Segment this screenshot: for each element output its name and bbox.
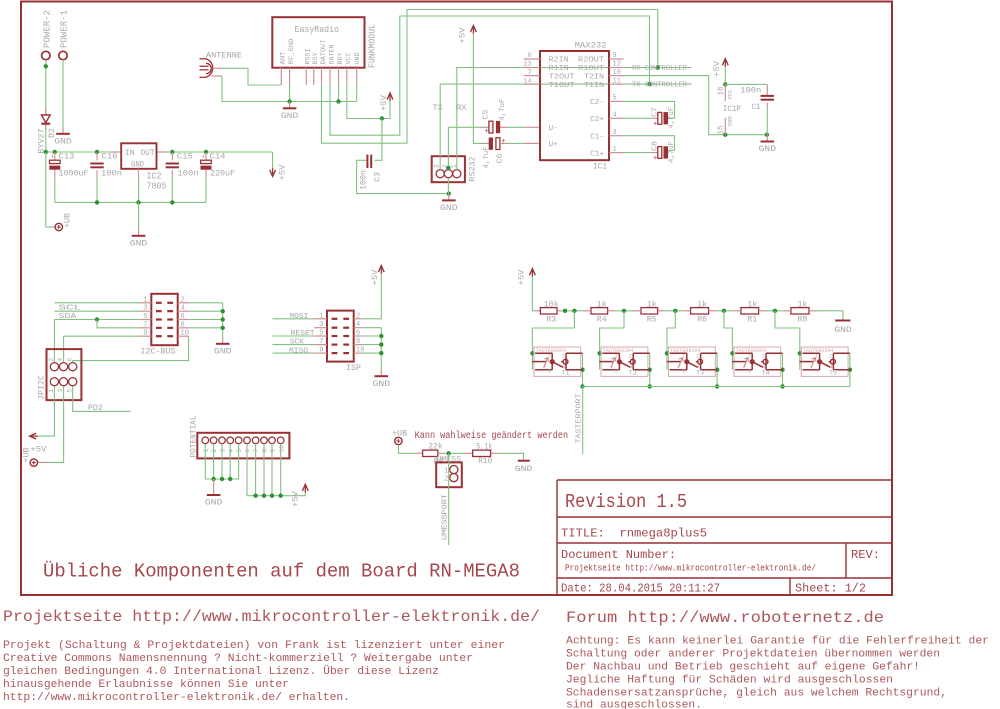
svg-text:POWER-1: POWER-1 [59,10,70,48]
label +5V EasyRadio [379,94,389,111]
svg-text:7805: 7805 [147,182,167,192]
svg-text:1: 1 [548,353,551,359]
svg-text:TX-CONTROLLER: TX-CONTROLLER [632,82,688,90]
svg-text:ANT: ANT [279,51,286,64]
svg-text:100n: 100n [101,169,122,179]
svg-text:2: 2 [829,353,832,359]
label PD2 [88,403,103,413]
svg-text:+UB: +UB [392,428,407,438]
svg-text:RSSI: RSSI [304,48,311,64]
wire I2C pin7 branch [97,320,139,328]
wire +UB branch [46,152,55,227]
wire VCC to +5V [347,84,390,121]
svg-text:2: 2 [356,312,360,320]
UMESS pads 1 2 [444,466,458,484]
ground GND under C1 [759,135,777,155]
svg-text:GND: GND [205,499,223,508]
wire ISP pin2 to +5V [362,273,381,319]
svg-text:GND: GND [354,52,361,64]
connector POWER-1 pad [59,51,67,59]
label +5V ISP [370,269,380,286]
svg-text:+: + [501,138,505,146]
svg-text:IN: IN [125,148,135,158]
label C15 [177,152,193,162]
title block project url [565,564,816,574]
label C6 [497,153,505,164]
EasyRadio pin labels [279,38,361,64]
connector POWER-2 pad [42,51,50,59]
svg-text:3: 3 [548,368,551,374]
resistor R1 1k [741,308,759,314]
power +5V arrow above VCC wire [387,93,393,101]
svg-text:R3: R3 [546,314,556,324]
svg-text:12: 12 [613,61,621,69]
svg-text:T3: T3 [696,370,704,377]
svg-text:3: 3 [615,368,618,374]
svg-text:R10: R10 [478,456,492,466]
wire RDY to ground rail [336,84,340,104]
svg-text:Projektseite http://www.mikroc: Projektseite http://www.mikrocontroller-… [3,608,540,626]
wire taster T3 output column [715,353,719,386]
svg-text:SCK: SCK [290,339,305,347]
label IC2 [147,172,162,182]
wire +5V to C6 [473,34,488,144]
label IC1 [593,162,607,172]
resistor R8 1k [791,308,809,314]
svg-text:+5V: +5V [458,27,468,44]
svg-text:C5: C5 [482,109,490,120]
MAX232 left pin stubs and numbers [523,52,540,85]
ground GND right of I2C-BUS [214,337,232,357]
svg-text:DATOUT: DATOUT [320,39,327,64]
label TASTERPORT [576,393,584,444]
label R5 [647,314,657,324]
connector POWER-1 label [59,10,70,48]
label +5V POTENTIAL [291,490,301,507]
svg-text:1: 1 [143,296,147,304]
svg-text:RS232: RS232 [467,157,477,182]
label T5 [829,370,837,377]
ic IC1P pin 15 GND [718,116,734,135]
label 4,7uF C8 [668,141,676,163]
label T3 [696,370,704,377]
svg-text:7: 7 [143,321,147,329]
svg-text:7: 7 [253,449,260,453]
wire resistor junction to taster T4 [724,311,733,354]
label UMESS [436,455,461,465]
label POTENTIAL [188,416,198,458]
svg-text:+: + [653,121,657,129]
svg-text:T1IN: T1IN [584,82,604,90]
svg-text:4,7uF: 4,7uF [483,147,491,169]
label ISP [346,363,361,373]
svg-text:U+: U+ [549,141,558,149]
capacitor C15 [166,152,179,202]
svg-text:hinausgehende Erlaubnisse könn: hinausgehende Erlaubnisse können Sie unt… [3,679,289,691]
label +UB UMESS [392,428,407,438]
svg-text:C1-: C1- [590,133,604,141]
svg-text:1: 1 [748,353,751,359]
svg-text:I2C-BUS: I2C-BUS [141,347,176,357]
svg-text:C15: C15 [177,152,193,162]
label 100n C1 [740,86,761,96]
svg-text:RESET: RESET [291,330,316,338]
svg-text:R1IN: R1IN [549,65,569,73]
svg-text:ANTENNE: ANTENNE [206,51,242,61]
svg-text:C2-: C2- [590,99,604,107]
diode D2 BYV27 [41,108,50,130]
svg-text:220uF: 220uF [210,169,235,179]
label SCL [58,305,81,313]
wire input rail [44,150,122,154]
svg-text:R2OUT: R2OUT [578,57,605,65]
svg-text:7: 7 [319,338,323,346]
svg-text:+: + [653,155,657,163]
net SCK wire [273,344,315,346]
svg-text:http://www.mikrocontroller-ele: http://www.mikrocontroller-elektronik.de… [3,692,350,704]
label +UB left [63,213,73,228]
svg-text:3: 3 [682,368,685,374]
wire I2C pin10 to JPI2C pin6 [73,336,189,362]
net SDA wire [54,310,139,312]
svg-text:T5: T5 [829,370,837,377]
label MOSI [289,313,308,321]
label MAX232 [575,41,607,51]
label C13 [59,152,75,162]
svg-text:R8: R8 [797,314,807,324]
svg-text:5: 5 [236,449,243,453]
connector POWER-2 label [41,10,52,48]
wire taster T5 output column [848,353,852,386]
net TX-CONTROLLER wire [624,82,692,86]
label R8 [797,314,807,324]
svg-text:6: 6 [356,330,360,338]
label JPI2C [37,375,47,400]
label C8 [652,141,660,151]
svg-text:JPI2C: JPI2C [37,375,47,400]
JPI2C pads [48,358,77,393]
svg-text:R6: R6 [697,314,707,324]
svg-text:+5V: +5V [517,269,527,286]
capacitor C13 [49,152,60,202]
wire +5V to IC1P VCC [723,67,727,87]
svg-text:Forum http://www.roboternetz.d: Forum http://www.roboternetz.de [566,609,884,627]
label C1 [752,102,761,112]
svg-text:MAX232: MAX232 [575,41,607,51]
capacitor C3 [367,155,371,168]
wires POTENTIAL pins 1-5 to ground [205,444,238,481]
svg-text:9: 9 [319,347,323,355]
label C14 [210,152,226,162]
switch T4 TASTER9304 [732,347,782,376]
connector RS232 box [432,156,465,182]
label FUNKMODUL [367,24,378,68]
svg-text:Creative Commons Namensnennung: Creative Commons Namensnennung ? Nicht-k… [3,653,473,665]
svg-text:T2: T2 [629,370,637,377]
svg-text:RX-CONTROLLER: RX-CONTROLLER [632,65,688,73]
wire C3 to ground [357,160,451,196]
svg-text:C8: C8 [652,141,660,151]
ground GND under RS232 [440,194,458,214]
wire RF_GND to ground rail [287,84,291,104]
label RS232 [467,157,477,182]
svg-text:Projekt (Schaltung & Projektda: Projekt (Schaltung & Projektdateien) von… [3,640,505,652]
svg-text:ISP: ISP [346,363,361,373]
svg-text:1k: 1k [697,300,707,310]
capacitor C14 [201,152,212,202]
svg-text:GND: GND [131,159,144,169]
wire RS232 RX to MAX232 pin13 [457,68,624,170]
schematic frame border [21,2,892,596]
svg-text:100n: 100n [740,86,761,96]
label +5V right of arrow [278,164,288,181]
svg-text:1000uF: 1000uF [59,169,89,179]
caption Projektseite url [3,608,540,626]
svg-text:C6: C6 [497,153,505,164]
svg-text:1: 1 [615,353,618,359]
title block Document Number row [561,548,676,562]
label T1 [562,370,570,377]
label T2 [629,370,637,377]
label 1k R5 [647,300,657,310]
svg-text:GND: GND [214,348,232,357]
EasyRadio pin stubs [281,68,356,85]
capacitor C8 [624,136,675,163]
svg-text:4,7uF: 4,7uF [668,107,676,129]
label +5V above C6 [458,27,468,44]
supply +UB circle JPI2C [30,459,37,466]
svg-text:+5V: +5V [370,269,380,286]
wire ground rail under regulator [55,200,206,204]
label R10 [478,456,492,466]
label 7805 [147,182,167,192]
svg-text:RX: RX [456,103,466,113]
svg-text:11: 11 [613,77,621,85]
svg-text:DATEN: DATEN [328,44,335,64]
svg-text:C3: C3 [373,172,383,182]
svg-text:3: 3 [748,368,751,374]
svg-text:MISO: MISO [289,347,309,355]
title block Sheet cell [795,582,866,596]
label 4,7uF C7 [668,107,676,129]
svg-text:5,1k: 5,1k [476,442,492,452]
svg-text:GND: GND [440,204,458,213]
svg-text:2: 2 [444,476,448,484]
ground GND under IC2 [130,202,148,248]
svg-text:T2IN: T2IN [584,73,604,81]
taster T4 pin numbers [748,353,766,374]
svg-text:1: 1 [444,468,448,476]
label RX-CONTROLLER [632,65,688,73]
wire DATEN to top net [330,16,650,135]
switch T3 TASTER9304 [667,347,717,376]
svg-text:1: 1 [682,353,685,359]
svg-text:Sheet: 1/2: Sheet: 1/2 [795,582,866,596]
svg-text:GND: GND [130,240,148,249]
label 5,1k [476,442,492,452]
svg-text:1: 1 [815,353,818,359]
wire RS232 TX to MAX232 pin14 [440,84,624,169]
svg-text:IC1: IC1 [593,162,607,172]
caption Forum url [566,609,884,627]
wire antenna ground feed [212,76,357,102]
wire RS232 pin2 to C5 and ground [446,127,450,193]
power +5V arrow above C6 [471,26,477,34]
svg-text:1: 1 [319,312,323,320]
ground GND right of R8 [834,321,852,335]
svg-text:10: 10 [278,445,285,453]
svg-text:POTENTIAL: POTENTIAL [188,416,198,458]
label 1k R1 [747,300,757,310]
module EasyRadio FUNKMODUL box [272,17,364,67]
svg-text:R4: R4 [597,314,607,324]
ground GND at POWER-1 [54,127,72,147]
svg-text:Projektseite http://www.mikroc: Projektseite http://www.mikrocontroller-… [565,564,816,574]
power +5V arrow IC1P [722,59,728,67]
warning paragraph [566,636,989,709]
wire I2C right bus to ground [189,303,225,337]
svg-text:T1: T1 [562,370,570,377]
svg-text:C1+: C1+ [590,150,604,158]
svg-text:VCC: VCC [345,52,352,64]
svg-text:15: 15 [718,126,726,135]
wire taster bus [583,386,850,388]
label R9 [434,456,444,466]
svg-text:Übliche Komponenten auf dem Bo: Übliche Komponenten auf dem Board RN-MEG… [43,561,520,583]
label RESET [291,330,316,338]
connector UMESS box [436,462,462,487]
wire taster T5 input column [798,351,802,370]
svg-text:6: 6 [66,358,73,362]
svg-text:8: 8 [181,321,185,329]
svg-text:6: 6 [245,449,252,453]
svg-text:3: 3 [613,129,617,137]
svg-text:T2OUT: T2OUT [549,73,576,81]
label 100n C15 [178,169,199,179]
svg-text:Schaltung oder anderer Projekt: Schaltung oder anderer Projektdateien üb… [566,649,940,661]
svg-text:+5V: +5V [278,164,288,181]
power +5V arrow above R3 [530,269,536,277]
taster T3 pin numbers [682,353,700,374]
svg-text:TITLE: rnmega8plus5: TITLE: rnmega8plus5 [561,527,707,541]
capacitor C16 [90,152,103,202]
ic MAX232 box [540,51,609,160]
label 10k R3 [544,300,559,310]
label R3 [546,314,556,324]
label C7 [652,107,660,117]
svg-text:T4: T4 [762,370,770,377]
svg-text:UMESSPORT: UMESSPORT [442,493,450,540]
wire taster T1 input column [530,351,534,370]
POTENTIAL pads [202,437,285,453]
net TASTERPORT wire [582,387,584,454]
svg-text:8: 8 [356,338,360,346]
svg-text:1: 1 [203,449,210,453]
svg-text:3: 3 [220,449,227,453]
svg-text:BYV27: BYV27 [37,129,47,154]
svg-text:4: 4 [228,449,235,453]
label R4 [597,314,607,324]
power +5V arrow down right of C14 [270,152,276,177]
label EasyRadio [295,24,340,35]
svg-text:C2+: C2+ [590,116,604,124]
label 100n C16 [101,169,122,179]
svg-text:MOSI: MOSI [289,313,308,321]
svg-text:R1: R1 [747,314,757,324]
MAX232 pin name labels [549,57,605,159]
svg-text:6: 6 [181,313,185,321]
svg-text:1k: 1k [797,300,807,310]
svg-text:C13: C13 [59,152,75,162]
svg-text:Der Nachbau und Betrieb geschi: Der Nachbau und Betrieb geschieht auf ei… [566,662,920,674]
label C5 [482,109,490,120]
note Kann wahlweise geaendert werden [415,430,568,442]
svg-text:100n: 100n [359,170,369,190]
svg-text:+UB: +UB [63,213,73,228]
svg-text:RF_GND: RF_GND [288,38,295,64]
svg-text:13: 13 [523,61,531,69]
svg-text:Date: 28.04.2015 20:11:27: Date: 28.04.2015 20:11:27 [561,582,720,596]
svg-text:3: 3 [143,305,147,313]
antenna symbol [200,59,213,78]
svg-text:+UB: +UB [22,448,32,463]
wire MAX232 pin10 to ground net [624,76,769,137]
svg-text:TX: TX [433,103,443,113]
svg-text:C7: C7 [652,107,660,117]
svg-text:+5V: +5V [30,445,47,455]
label +5V R3 [517,269,527,286]
wire taster T2 output column [648,353,652,386]
svg-text:4: 4 [613,112,617,120]
power +5V arrow right of POTENTIAL [302,484,308,492]
resistor R6 1k [691,308,709,314]
svg-text:10k: 10k [544,300,559,310]
license paragraph [3,640,505,704]
svg-text:16: 16 [718,87,726,96]
label SCK [290,339,305,347]
svg-text:C14: C14 [210,152,226,162]
MAX232 right pin stubs and numbers [609,52,624,154]
label D2 [47,128,57,138]
wire taster T2 input column [597,351,601,370]
svg-text:gleichen Bedingungen 4.0 Inter: gleichen Bedingungen 4.0 International L… [3,665,439,678]
svg-text:1k: 1k [647,300,657,310]
label R1 [747,314,757,324]
wire resistor chain segments [557,309,843,313]
wire I2C pin5 to JPI2C pin2 [54,317,139,362]
svg-text:U-: U- [549,125,558,133]
label C16 [102,152,118,162]
svg-text:9: 9 [270,449,277,453]
svg-text:GND: GND [834,326,852,335]
svg-text:EasyRadio: EasyRadio [295,24,340,35]
wire JPI2C pin3 to +UB [38,386,64,462]
svg-text:22k: 22k [428,442,443,452]
svg-text:4,7uF: 4,7uF [668,141,676,163]
switch T1 TASTER9304 [532,347,582,376]
svg-text:1: 1 [613,146,617,154]
title block Date row [561,582,720,596]
svg-text:5: 5 [613,95,617,103]
net UMESSPORT wire [448,453,450,545]
wire chain end to ground [842,311,844,320]
svg-text:+5V: +5V [291,490,301,507]
wire output rail [157,150,273,154]
supply +UB circle UMESS [395,437,402,444]
wire +UB to R9 [398,445,422,453]
svg-text:REV:: REV: [851,548,880,562]
svg-text:Schadensersatzansprüche, gleic: Schadensersatzansprüche, gleich aus welc… [566,688,947,700]
